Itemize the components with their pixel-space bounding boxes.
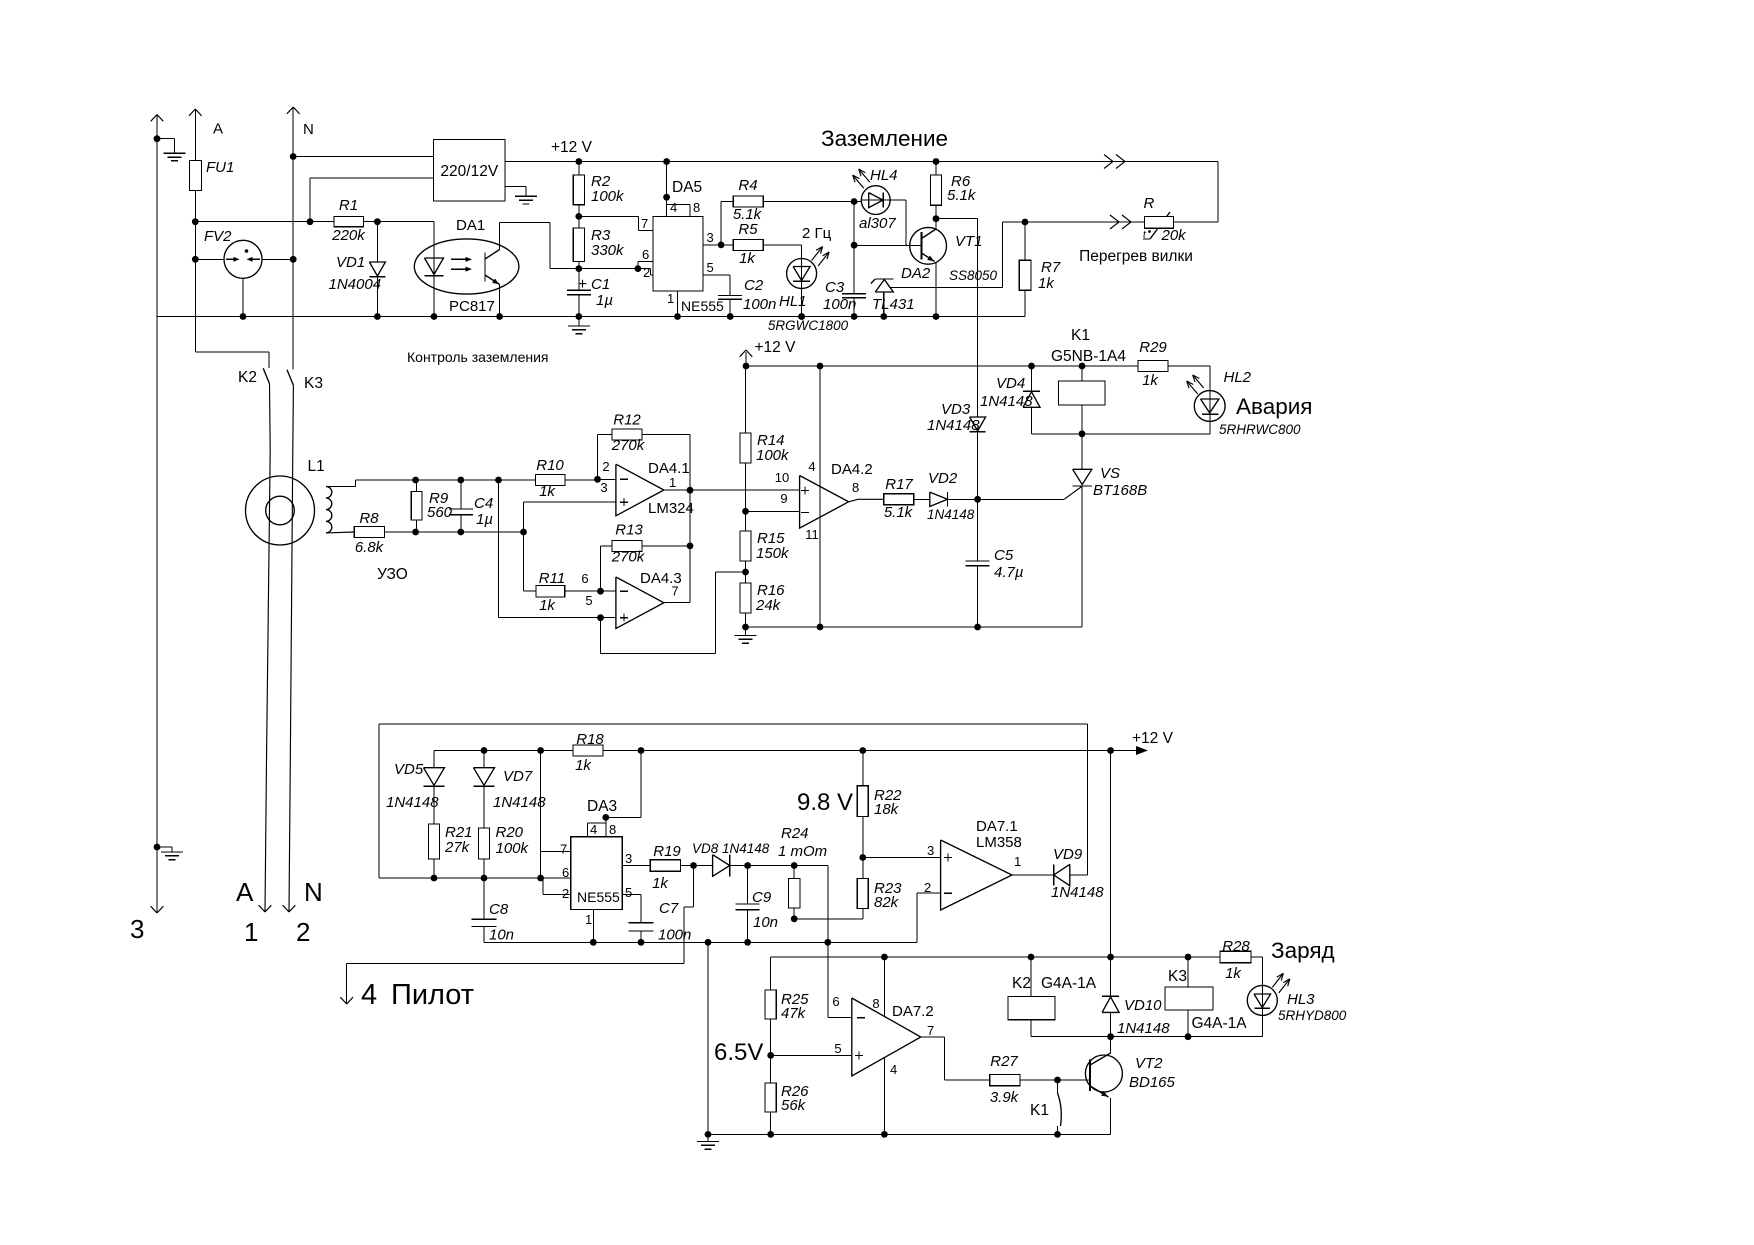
- svg-text:100k: 100k: [756, 447, 790, 464]
- svg-text:9: 9: [780, 491, 787, 506]
- svg-text:HL2: HL2: [1224, 369, 1252, 386]
- svg-text:R5: R5: [738, 221, 758, 238]
- svg-text:VD2: VD2: [928, 470, 958, 487]
- svg-text:R19: R19: [653, 843, 681, 860]
- svg-text:BT168B: BT168B: [1093, 482, 1147, 499]
- svg-text:DA5: DA5: [672, 179, 702, 196]
- svg-text:1: 1: [669, 475, 676, 490]
- svg-text:al307: al307: [859, 215, 896, 232]
- svg-text:C8: C8: [489, 901, 509, 918]
- svg-text:HL1: HL1: [779, 293, 807, 310]
- svg-text:R4: R4: [738, 177, 757, 194]
- svg-text:4: 4: [890, 1062, 897, 1077]
- svg-text:DA7.2: DA7.2: [892, 1003, 934, 1020]
- svg-text:K1: K1: [1030, 1102, 1049, 1119]
- svg-text:R8: R8: [359, 510, 379, 527]
- svg-text:10n: 10n: [753, 914, 778, 931]
- svg-text:G4A-1A: G4A-1A: [1041, 975, 1097, 992]
- svg-text:1N4004: 1N4004: [329, 276, 382, 293]
- svg-text:VD9: VD9: [1053, 846, 1083, 863]
- svg-text:R29: R29: [1139, 339, 1167, 356]
- svg-text:NE555: NE555: [577, 889, 620, 905]
- svg-text:L1: L1: [308, 458, 325, 475]
- svg-text:C5: C5: [994, 547, 1014, 564]
- svg-text:20k: 20k: [1161, 227, 1188, 244]
- svg-text:1k: 1k: [652, 875, 669, 892]
- svg-text:220k: 220k: [331, 227, 366, 244]
- svg-text:1: 1: [244, 917, 258, 947]
- svg-text:1k: 1k: [539, 483, 556, 500]
- svg-text:5: 5: [585, 593, 592, 608]
- svg-text:3: 3: [707, 230, 714, 245]
- svg-text:УЗО: УЗО: [377, 566, 408, 583]
- svg-text:8: 8: [693, 200, 700, 215]
- svg-text:+12 V: +12 V: [551, 139, 593, 156]
- svg-text:LM324: LM324: [648, 500, 694, 517]
- svg-text:R1: R1: [339, 197, 358, 214]
- svg-text:3.9k: 3.9k: [990, 1089, 1020, 1106]
- svg-text:6: 6: [562, 865, 569, 880]
- svg-text:4: 4: [361, 979, 377, 1011]
- svg-text:DA7.1: DA7.1: [976, 818, 1018, 835]
- svg-text:7: 7: [671, 584, 678, 599]
- svg-text:1N4148: 1N4148: [386, 794, 439, 811]
- svg-text:+: +: [578, 276, 587, 293]
- svg-text:5.1k: 5.1k: [947, 187, 977, 204]
- svg-text:1k: 1k: [1225, 965, 1242, 982]
- svg-text:2: 2: [562, 886, 569, 901]
- svg-text:Контроль заземления: Контроль заземления: [407, 349, 549, 365]
- svg-text:100k: 100k: [496, 840, 530, 857]
- svg-text:C2: C2: [744, 277, 764, 294]
- svg-text:18k: 18k: [874, 801, 900, 818]
- svg-text:24k: 24k: [755, 597, 782, 614]
- svg-text:6: 6: [832, 994, 839, 1009]
- svg-text:VD1: VD1: [336, 254, 365, 271]
- svg-text:270k: 270k: [611, 437, 646, 454]
- svg-text:1k: 1k: [1142, 372, 1159, 389]
- svg-text:R7: R7: [1041, 259, 1061, 276]
- svg-text:1N4148: 1N4148: [493, 794, 546, 811]
- svg-text:6: 6: [642, 247, 649, 262]
- svg-text:K3: K3: [304, 375, 323, 392]
- svg-text:7: 7: [641, 216, 648, 231]
- svg-text:C4: C4: [474, 495, 493, 512]
- svg-text:150k: 150k: [756, 545, 790, 562]
- svg-text:VD10: VD10: [1124, 997, 1162, 1014]
- svg-text:Перегрев вилки: Перегрев вилки: [1079, 248, 1193, 265]
- svg-text:1µ: 1µ: [476, 511, 493, 528]
- svg-text:3: 3: [625, 851, 632, 866]
- svg-text:3: 3: [600, 480, 607, 495]
- svg-text:K1: K1: [1071, 327, 1090, 344]
- svg-text:1µ: 1µ: [596, 292, 613, 309]
- svg-text:C9: C9: [752, 889, 772, 906]
- svg-text:N: N: [304, 877, 323, 907]
- svg-text:HL3: HL3: [1287, 991, 1315, 1008]
- svg-text:R10: R10: [536, 457, 564, 474]
- svg-text:100n: 100n: [743, 296, 776, 313]
- svg-text:+12 V: +12 V: [755, 339, 797, 356]
- svg-text:2: 2: [924, 880, 931, 895]
- svg-text:SS8050: SS8050: [949, 268, 998, 283]
- svg-text:BD165: BD165: [1129, 1074, 1176, 1091]
- svg-text:100k: 100k: [591, 188, 625, 205]
- svg-text:6.5V: 6.5V: [714, 1039, 763, 1066]
- svg-text:11: 11: [805, 527, 819, 542]
- svg-text:5: 5: [834, 1041, 841, 1056]
- svg-text:DA4.2: DA4.2: [831, 461, 873, 478]
- svg-text:6.8k: 6.8k: [355, 539, 385, 556]
- svg-text:330k: 330k: [591, 242, 625, 259]
- svg-text:4: 4: [670, 200, 677, 215]
- svg-text:R13: R13: [615, 522, 643, 539]
- svg-text:8: 8: [872, 996, 879, 1011]
- svg-text:R: R: [1144, 195, 1155, 212]
- svg-text:DA2: DA2: [901, 265, 931, 282]
- svg-text:R27: R27: [990, 1053, 1018, 1070]
- svg-text:C7: C7: [659, 900, 679, 917]
- svg-text:HL4: HL4: [870, 167, 898, 184]
- svg-text:Заземление: Заземление: [821, 126, 948, 151]
- svg-text:DA1: DA1: [456, 217, 485, 234]
- svg-text:6: 6: [581, 571, 588, 586]
- svg-text:Авария: Авария: [1236, 394, 1313, 419]
- svg-text:4: 4: [808, 459, 815, 474]
- svg-text:1k: 1k: [539, 597, 556, 614]
- svg-text:5: 5: [707, 260, 714, 275]
- svg-text:FU1: FU1: [206, 159, 234, 176]
- svg-text:5: 5: [625, 885, 632, 900]
- svg-text:R12: R12: [613, 412, 641, 429]
- svg-text:DA3: DA3: [587, 798, 617, 815]
- svg-text:4.7µ: 4.7µ: [994, 564, 1024, 581]
- svg-text:100n: 100n: [658, 927, 691, 944]
- svg-text:R18: R18: [576, 731, 604, 748]
- svg-text:5RGWC1800: 5RGWC1800: [768, 318, 849, 333]
- svg-text:Пилот: Пилот: [391, 979, 474, 1011]
- svg-text:2: 2: [296, 917, 310, 947]
- svg-text:VT2: VT2: [1135, 1055, 1163, 1072]
- svg-text:7: 7: [560, 842, 567, 857]
- svg-text:R24: R24: [781, 825, 809, 842]
- svg-text:G5NB-1A4: G5NB-1A4: [1051, 348, 1126, 365]
- svg-text:VS: VS: [1100, 465, 1120, 482]
- svg-text:2: 2: [643, 265, 650, 280]
- svg-text:2 Гц: 2 Гц: [802, 225, 832, 242]
- svg-text:VT1: VT1: [955, 233, 983, 250]
- svg-text:1N4148: 1N4148: [722, 841, 770, 856]
- svg-text:1N4148: 1N4148: [1051, 884, 1104, 901]
- svg-text:1N4148: 1N4148: [980, 393, 1033, 410]
- svg-text:4: 4: [590, 822, 597, 837]
- svg-text:56k: 56k: [781, 1097, 807, 1114]
- svg-text:K2: K2: [1012, 975, 1031, 992]
- svg-text:R20: R20: [496, 824, 524, 841]
- svg-text:A: A: [236, 877, 254, 907]
- svg-text:VD3: VD3: [941, 401, 971, 418]
- svg-text:TL431: TL431: [872, 296, 915, 313]
- svg-text:2: 2: [602, 459, 609, 474]
- svg-text:N: N: [303, 121, 314, 138]
- svg-text:A: A: [213, 121, 223, 138]
- svg-text:LM358: LM358: [976, 834, 1022, 851]
- svg-text:VD8: VD8: [692, 841, 719, 856]
- svg-text:9.8 V: 9.8 V: [797, 789, 853, 816]
- svg-text:10n: 10n: [489, 927, 514, 944]
- svg-text:1k: 1k: [575, 757, 592, 774]
- svg-text:PC817: PC817: [449, 298, 495, 315]
- svg-text:R17: R17: [885, 476, 913, 493]
- svg-text:220/12V: 220/12V: [440, 163, 498, 180]
- svg-text:8: 8: [609, 822, 616, 837]
- svg-text:1k: 1k: [739, 250, 756, 267]
- svg-text:Заряд: Заряд: [1271, 938, 1335, 963]
- svg-text:1N4148: 1N4148: [1117, 1020, 1170, 1037]
- svg-text:7: 7: [927, 1023, 934, 1038]
- svg-text:27k: 27k: [444, 839, 471, 856]
- svg-text:1k: 1k: [1038, 275, 1055, 292]
- svg-text:1N4148: 1N4148: [927, 417, 980, 434]
- svg-text:1N4148: 1N4148: [927, 507, 975, 522]
- svg-text:10: 10: [775, 470, 789, 485]
- svg-text:3: 3: [130, 914, 144, 944]
- svg-text:FV2: FV2: [204, 228, 232, 245]
- svg-text:1: 1: [667, 291, 674, 306]
- svg-text:560: 560: [427, 504, 453, 521]
- svg-text:82k: 82k: [874, 894, 900, 911]
- svg-text:5RHYD800: 5RHYD800: [1278, 1008, 1347, 1023]
- svg-text:R28: R28: [1222, 938, 1250, 955]
- svg-text:C3: C3: [825, 279, 845, 296]
- svg-text:+12 V: +12 V: [1132, 730, 1174, 747]
- svg-text:270k: 270k: [611, 549, 646, 566]
- svg-text:K2: K2: [238, 369, 257, 386]
- svg-text:100n: 100n: [823, 296, 856, 313]
- svg-text:1 mOm: 1 mOm: [778, 843, 827, 860]
- svg-text:K3: K3: [1168, 968, 1187, 985]
- svg-text:3: 3: [927, 843, 934, 858]
- svg-text:C1: C1: [591, 276, 610, 293]
- svg-text:G4A-1A: G4A-1A: [1192, 1015, 1248, 1032]
- svg-text:NE555: NE555: [681, 298, 724, 314]
- svg-text:R11: R11: [539, 570, 565, 587]
- svg-text:1: 1: [1014, 854, 1021, 869]
- svg-text:47k: 47k: [781, 1005, 807, 1022]
- svg-text:5.1k: 5.1k: [884, 504, 914, 521]
- svg-text:8: 8: [852, 480, 859, 495]
- svg-text:1: 1: [585, 912, 592, 927]
- svg-text:5RHRWC800: 5RHRWC800: [1219, 422, 1301, 437]
- svg-text:VD5: VD5: [394, 761, 424, 778]
- svg-text:VD7: VD7: [503, 768, 533, 785]
- svg-text:VD4: VD4: [996, 375, 1025, 392]
